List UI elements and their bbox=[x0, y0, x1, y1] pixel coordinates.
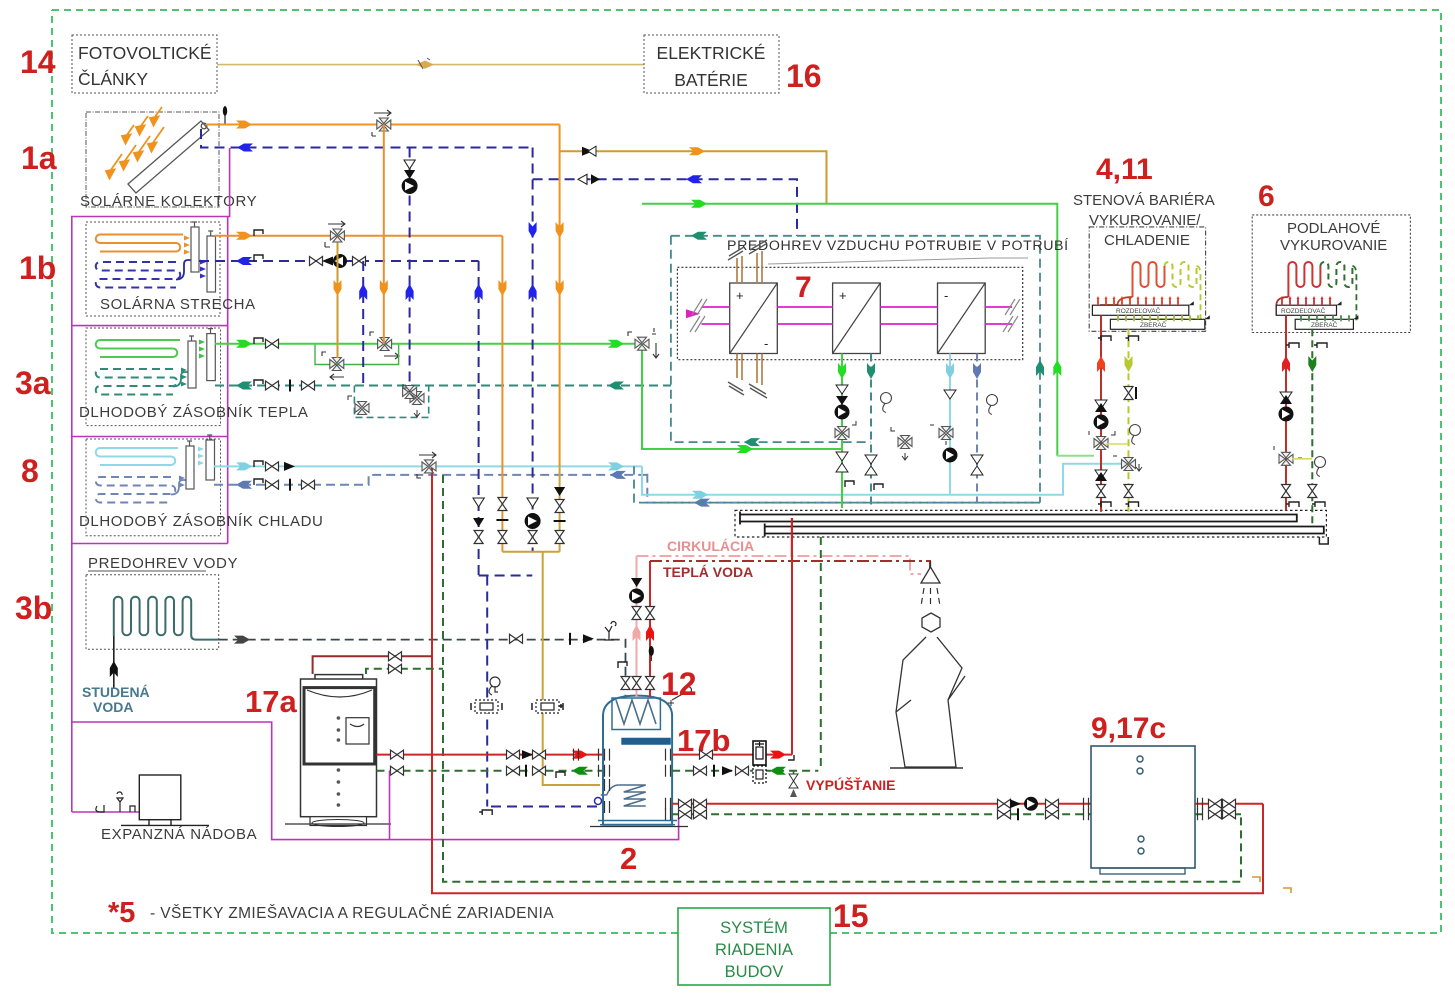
box ELEKTRICKE BATERIE bbox=[644, 35, 779, 93]
label 6 bbox=[1258, 180, 1275, 213]
boiler 17a body bbox=[285, 675, 391, 827]
svg-text:-: - bbox=[944, 288, 948, 303]
tank blue band bbox=[621, 738, 671, 745]
mixer at cyan/red junction bbox=[417, 452, 436, 478]
wire: red main riser bbox=[432, 466, 1263, 893]
svg-text:EXPANZNÁ NÁDOBA: EXPANZNÁ NÁDOBA bbox=[101, 826, 257, 843]
strecha heat exchanger cylinders bbox=[191, 222, 216, 292]
svg-text:3a: 3a bbox=[15, 365, 51, 401]
riser: teal under exchanger1 bbox=[865, 354, 912, 509]
svg-text:CIRKULÁCIA: CIRKULÁCIA bbox=[667, 538, 754, 554]
expansion vessel EXPANZNA NADOBA bbox=[101, 775, 257, 843]
box stenova bariera bbox=[1089, 227, 1205, 331]
pump station box return bbox=[753, 766, 766, 783]
valve green supply bbox=[266, 339, 279, 348]
air duct outer dotted bbox=[735, 510, 1328, 544]
wire: tank lower right green dashed to heat pump bbox=[672, 808, 1091, 820]
heat exchanger plate 2 bbox=[833, 283, 881, 354]
heat meter on gold riser bbox=[532, 700, 563, 713]
brown air tubes exchanger 1 bbox=[737, 251, 762, 385]
wire: preheated water dashed line bbox=[219, 636, 626, 697]
wire: cyan chladu supply bbox=[214, 461, 642, 470]
box SOLARNA STRECHA bbox=[86, 222, 256, 316]
solar collector panel 1a bbox=[128, 121, 209, 193]
purple expansion line from collector bbox=[72, 148, 679, 840]
wire: purple to tank bottom bbox=[389, 771, 391, 840]
label 2 bbox=[620, 841, 637, 876]
mixing valve green junction bbox=[628, 328, 659, 358]
svg-text:14: 14 bbox=[20, 44, 56, 80]
small arrows into strecha cylinders bbox=[184, 236, 190, 255]
strecha navy dashed coil bbox=[96, 260, 196, 288]
green bypass box under green line bbox=[315, 345, 399, 365]
wire: tank hot supply right bbox=[672, 518, 794, 760]
label 1b bbox=[19, 250, 56, 286]
wire: boiler return top green dashed bbox=[366, 664, 443, 674]
stenova coil olive part bbox=[1138, 262, 1201, 319]
label 12 bbox=[661, 666, 697, 702]
footnote *5 bbox=[108, 897, 554, 929]
check valve strecha return bbox=[322, 257, 333, 266]
mixing valve on bypass bbox=[322, 352, 344, 380]
svg-text:7: 7 bbox=[795, 271, 812, 304]
svg-text:VYKUROVANIE/: VYKUROVANIE/ bbox=[1089, 212, 1201, 229]
riser: podlahove red supply bbox=[1274, 315, 1302, 510]
svg-text:17a: 17a bbox=[245, 684, 297, 719]
podlahove coil green part bbox=[1320, 262, 1356, 319]
wire: light green into stenova mixer bbox=[1057, 455, 1094, 457]
wire: orange main riser x559 bbox=[556, 125, 564, 552]
box SOLARNE KOLEKTORY bbox=[80, 112, 257, 210]
svg-text:VYPÚŠŤANIE: VYPÚŠŤANIE bbox=[806, 776, 895, 793]
svg-text:DLHODOBÝ ZÁSOBNÍK TEPLA: DLHODOBÝ ZÁSOBNÍK TEPLA bbox=[79, 404, 308, 421]
air duct lower pipe bbox=[765, 524, 1324, 537]
wire: orange strecha supply bbox=[215, 230, 502, 240]
box SYSTEM RIADENIA BUDOV bbox=[678, 908, 830, 985]
label 3a bbox=[15, 365, 51, 401]
thermometer on collector outlet bbox=[223, 106, 227, 124]
svg-text:*5: *5 bbox=[108, 897, 135, 929]
teal dashed preheater frame bbox=[634, 232, 1044, 503]
heat pump 9,17c bbox=[1091, 712, 1195, 874]
svg-text:2: 2 bbox=[620, 841, 637, 876]
riser: stenova red supply bbox=[1089, 315, 1115, 512]
mixing valve on top orange line bbox=[372, 110, 391, 136]
svg-text:RIADENIA: RIADENIA bbox=[715, 941, 793, 959]
small arrows into chladu cylinders bbox=[198, 447, 204, 466]
label 14 bbox=[20, 44, 56, 80]
drain VYPUSTANIE bbox=[789, 771, 895, 797]
svg-text:1a: 1a bbox=[21, 140, 57, 176]
svg-text:ZBERAČ: ZBERAČ bbox=[1140, 320, 1167, 329]
wire: tank lower right red to heat pump bbox=[672, 797, 1091, 811]
valves navy riser x478 bbox=[473, 498, 484, 544]
shower head bbox=[921, 561, 940, 606]
label CIRKULACIA bbox=[667, 538, 754, 554]
svg-text:ČLÁNKY: ČLÁNKY bbox=[78, 68, 148, 89]
stenova zberac bar bbox=[1110, 315, 1209, 329]
wire: heat pump right red bbox=[1195, 798, 1263, 810]
riser: podlahove green return bbox=[1292, 329, 1327, 525]
pump on navy riser bbox=[402, 170, 418, 194]
wire: gold collector bus y551 bbox=[502, 552, 600, 785]
wire: navy riser x487 to tank bbox=[479, 576, 603, 816]
box PREDOHREV VODY bbox=[86, 575, 219, 650]
wire: green tepla supply bbox=[215, 338, 642, 348]
label 15 bbox=[833, 898, 869, 934]
mixing valve on strecha supply bbox=[325, 221, 345, 247]
heat meter on navy riser bbox=[471, 700, 502, 713]
svg-text:PODLAHOVÉ: PODLAHOVÉ bbox=[1287, 220, 1380, 237]
wire: navy riser x478 bbox=[475, 261, 483, 576]
label 8 bbox=[21, 453, 39, 489]
valve strecha return 2 bbox=[353, 257, 366, 266]
wire: navy riser x532 from top line bbox=[529, 148, 537, 552]
wire: navy dashed collector return bbox=[201, 129, 533, 152]
svg-text:CHLADENIE: CHLADENIE bbox=[1104, 232, 1190, 249]
svg-text:SYSTÉM: SYSTÉM bbox=[720, 918, 788, 937]
svg-text:+: + bbox=[736, 288, 744, 303]
heat exchanger plate 1 bbox=[730, 283, 778, 354]
svg-text:ROZDEĽOVAČ: ROZDEĽOVAČ bbox=[1281, 306, 1326, 315]
air vent symbol bbox=[604, 621, 616, 640]
wire: red hot water riser bbox=[646, 561, 655, 697]
key symbol above heat meter bbox=[489, 677, 500, 695]
svg-text:4,11: 4,11 bbox=[1096, 153, 1153, 186]
wire: PV tan line to battery bbox=[217, 58, 644, 69]
wire: cyan into preheater bbox=[608, 462, 1129, 498]
sun ray arrows bbox=[106, 107, 164, 179]
strecha orange coil bbox=[96, 235, 183, 252]
svg-text:VYKUROVANIE: VYKUROVANIE bbox=[1280, 237, 1387, 254]
box DLHODOBY ZASOBNIK TEPLA bbox=[79, 328, 308, 426]
svg-text:ZBERAČ: ZBERAČ bbox=[1311, 320, 1338, 329]
podlahove zberac bar bbox=[1295, 315, 1358, 329]
magenta arrow + hatches bbox=[686, 299, 1020, 332]
svg-text:9,17c: 9,17c bbox=[1091, 712, 1166, 745]
wire: orange riser x502 bbox=[498, 236, 506, 552]
mixer at teal line x409 bbox=[403, 386, 417, 399]
riser: cyan under exchanger3 bbox=[930, 354, 958, 495]
mixing valve on green line bbox=[370, 332, 399, 359]
tank flanges right bbox=[666, 749, 671, 821]
riser: green under exchanger1 bbox=[835, 354, 857, 509]
wire: red hot supply through duct bbox=[791, 518, 793, 556]
chladu slate dashed coil bbox=[96, 477, 189, 503]
label TEPLA VODA bbox=[663, 564, 753, 580]
person figure bbox=[890, 613, 965, 768]
teal sub-box with mixing valves bbox=[348, 384, 429, 417]
valves orange riser x502 bbox=[496, 498, 508, 544]
svg-text:6: 6 bbox=[1258, 180, 1275, 213]
svg-text:ROZDEĽOVAČ: ROZDEĽOVAČ bbox=[1116, 306, 1161, 315]
label 1a bbox=[21, 140, 57, 176]
tank thermometer handle bbox=[668, 687, 692, 707]
svg-text:12: 12 bbox=[661, 666, 697, 702]
wire: navy link y575 bbox=[479, 575, 533, 577]
valve on preheat line bbox=[510, 633, 595, 645]
tepla cylinders bbox=[188, 329, 215, 388]
wire: navy riser x363 bbox=[359, 261, 367, 386]
svg-text:- VŠETKY ZMIEŠAVACIA A REGULAČ: - VŠETKY ZMIEŠAVACIA A REGULAČNÉ ZARIADE… bbox=[150, 905, 554, 922]
valves gold riser x559 bbox=[554, 487, 566, 544]
wire: tank return right green dashed bbox=[672, 765, 818, 777]
riser: slate under exchanger3 bbox=[971, 354, 998, 503]
wire: navy branch to air preheater bbox=[533, 174, 797, 236]
stenova rozdelovac bar bbox=[1092, 296, 1193, 315]
riser: stenova olive return bbox=[1106, 329, 1142, 512]
wire: dark green dashed main riser bbox=[443, 475, 1241, 882]
predohrev vody coil bbox=[114, 597, 219, 640]
label 7 bbox=[795, 271, 812, 304]
valves slate return bbox=[266, 479, 315, 491]
pump station box hot bbox=[753, 741, 766, 765]
valve cyan supply + check bbox=[266, 462, 296, 471]
svg-text:STUDENÁ: STUDENÁ bbox=[82, 684, 150, 700]
svg-text:16: 16 bbox=[786, 58, 822, 94]
chladu cylinders bbox=[186, 435, 215, 489]
box DLHODOBY ZASOBNIK CHLADU bbox=[79, 439, 323, 536]
tepla green coil bbox=[96, 340, 180, 357]
label PREDOHREV VZDUCHU POTRUBIE V POTRUBI bbox=[727, 237, 1069, 264]
label STUDENA VODA bbox=[82, 684, 150, 715]
svg-text:SOLÁRNA STRECHA: SOLÁRNA STRECHA bbox=[100, 296, 256, 313]
svg-text:TEPLÁ VODA: TEPLÁ VODA bbox=[663, 564, 753, 580]
tank upper coil bbox=[616, 700, 656, 724]
gold end hooks bottom right bbox=[1252, 877, 1291, 893]
wire: teal dashed tepla return bbox=[215, 380, 671, 390]
label 17b bbox=[677, 723, 730, 758]
svg-text:SOLÁRNE KOLEKTORY: SOLÁRNE KOLEKTORY bbox=[80, 193, 257, 210]
wire: pink circulation line bbox=[637, 556, 922, 574]
heat exchanger plate 3 bbox=[938, 283, 986, 354]
valves navy riser x532 bbox=[525, 498, 541, 544]
wire: orange collector supply top bbox=[206, 121, 560, 129]
wire: heat pump right green dashed bbox=[1195, 808, 1241, 820]
wire: orange branch to battery loop bbox=[560, 146, 827, 204]
wire: orange riser x383 bbox=[380, 125, 388, 345]
svg-text:3b: 3b bbox=[15, 590, 52, 626]
wire: pink circulation riser bbox=[629, 556, 644, 697]
svg-text:BUDOV: BUDOV bbox=[725, 963, 784, 981]
svg-text:BATÉRIE: BATÉRIE bbox=[674, 70, 748, 90]
svg-text:PREDOHREV VZDUCHU POTRUBIE V P: PREDOHREV VZDUCHU POTRUBIE V POTRUBÍ bbox=[727, 237, 1069, 254]
svg-text:FOTOVOLTICKÉ: FOTOVOLTICKÉ bbox=[78, 43, 212, 63]
label 16 bbox=[786, 58, 822, 94]
air duct upper pipe bbox=[740, 512, 1297, 525]
label STENOVA BARIERA bbox=[1073, 192, 1215, 249]
svg-text:8: 8 bbox=[21, 453, 39, 489]
valve before tank top bbox=[618, 662, 630, 690]
svg-text:DLHODOBÝ ZÁSOBNÍK CHLADU: DLHODOBÝ ZÁSOBNÍK CHLADU bbox=[79, 513, 323, 530]
inner dotted box bbox=[677, 267, 1022, 359]
wire: dark green dashed duct to tank return bbox=[820, 537, 822, 771]
valves teal return bbox=[266, 380, 315, 392]
label 17a bbox=[245, 684, 297, 719]
magenta air lines bbox=[702, 307, 1013, 324]
check valve on navy riser bbox=[404, 160, 415, 169]
svg-text:ELEKTRICKÉ: ELEKTRICKÉ bbox=[657, 43, 766, 63]
wire: boiler to tank green dashed bbox=[377, 765, 604, 778]
tank lower coil bbox=[601, 785, 646, 806]
wire: navy dashed strecha return bbox=[199, 255, 479, 265]
wire: boiler hot supply top bbox=[313, 652, 432, 674]
svg-text:15: 15 bbox=[833, 898, 869, 934]
svg-text:PREDOHREV VODY: PREDOHREV VODY bbox=[88, 555, 238, 572]
wire: boiler to tank red bbox=[377, 749, 604, 761]
svg-text:1b: 1b bbox=[19, 250, 56, 286]
small arrows into tepla cylinders bbox=[199, 340, 205, 359]
box FOTOVOLTICKE CLANKY bbox=[72, 35, 217, 93]
wire: gold riser x337 bbox=[334, 236, 342, 358]
tank 2 body bbox=[590, 696, 688, 827]
wire: cold water inlet bbox=[110, 636, 118, 689]
wire: dark red hot water line bbox=[650, 561, 930, 570]
stenova coil red part bbox=[1101, 262, 1165, 315]
svg-text:STENOVÁ BARIÉRA: STENOVÁ BARIÉRA bbox=[1073, 192, 1215, 209]
label PREDOHREV VODY bbox=[88, 555, 238, 572]
podlahove rozdelovac bar bbox=[1276, 296, 1341, 315]
boiler dots bbox=[337, 716, 341, 807]
pump strecha return bbox=[333, 254, 347, 268]
label 3b bbox=[15, 590, 52, 626]
safety group at expansion vessel bbox=[96, 792, 135, 812]
label 4,11 bbox=[1096, 153, 1153, 186]
valve on strecha return bbox=[310, 257, 323, 266]
tank flanges left bbox=[605, 749, 610, 813]
podlahove coil red part bbox=[1276, 262, 1320, 315]
svg-text:VODA: VODA bbox=[93, 699, 133, 715]
wire: navy riser x409 with pump bbox=[406, 148, 414, 393]
wire: slate dashed chladu return bbox=[214, 471, 1040, 507]
svg-text:+: + bbox=[839, 288, 847, 303]
box podlahove vykurovanie bbox=[1252, 215, 1410, 333]
wire: green main loop bbox=[608, 200, 1061, 456]
tepla teal dashed coil bbox=[96, 369, 191, 395]
chladu cyan coil bbox=[96, 448, 178, 465]
svg-text:-: - bbox=[764, 336, 768, 351]
